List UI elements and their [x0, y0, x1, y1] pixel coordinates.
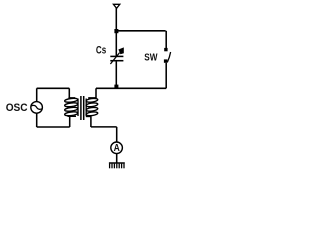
svg-text:A: A — [114, 143, 120, 154]
svg-text:OSC: OSC — [6, 102, 28, 114]
svg-text:Cs: Cs — [96, 45, 106, 57]
svg-text:SW: SW — [144, 52, 157, 64]
